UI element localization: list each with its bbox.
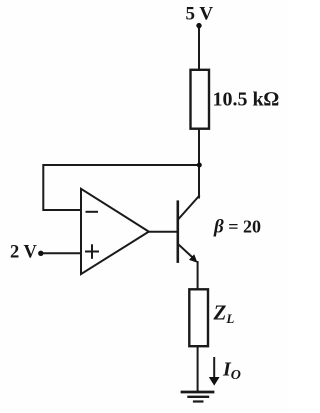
svg-text:IO: IO — [222, 359, 241, 384]
svg-text:10.5 kΩ: 10.5 kΩ — [213, 89, 279, 111]
svg-text:5 V: 5 V — [186, 4, 214, 25]
svg-text:β = 20: β = 20 — [213, 217, 261, 238]
svg-text:ZL: ZL — [213, 301, 235, 327]
svg-text:2 V: 2 V — [10, 243, 38, 263]
